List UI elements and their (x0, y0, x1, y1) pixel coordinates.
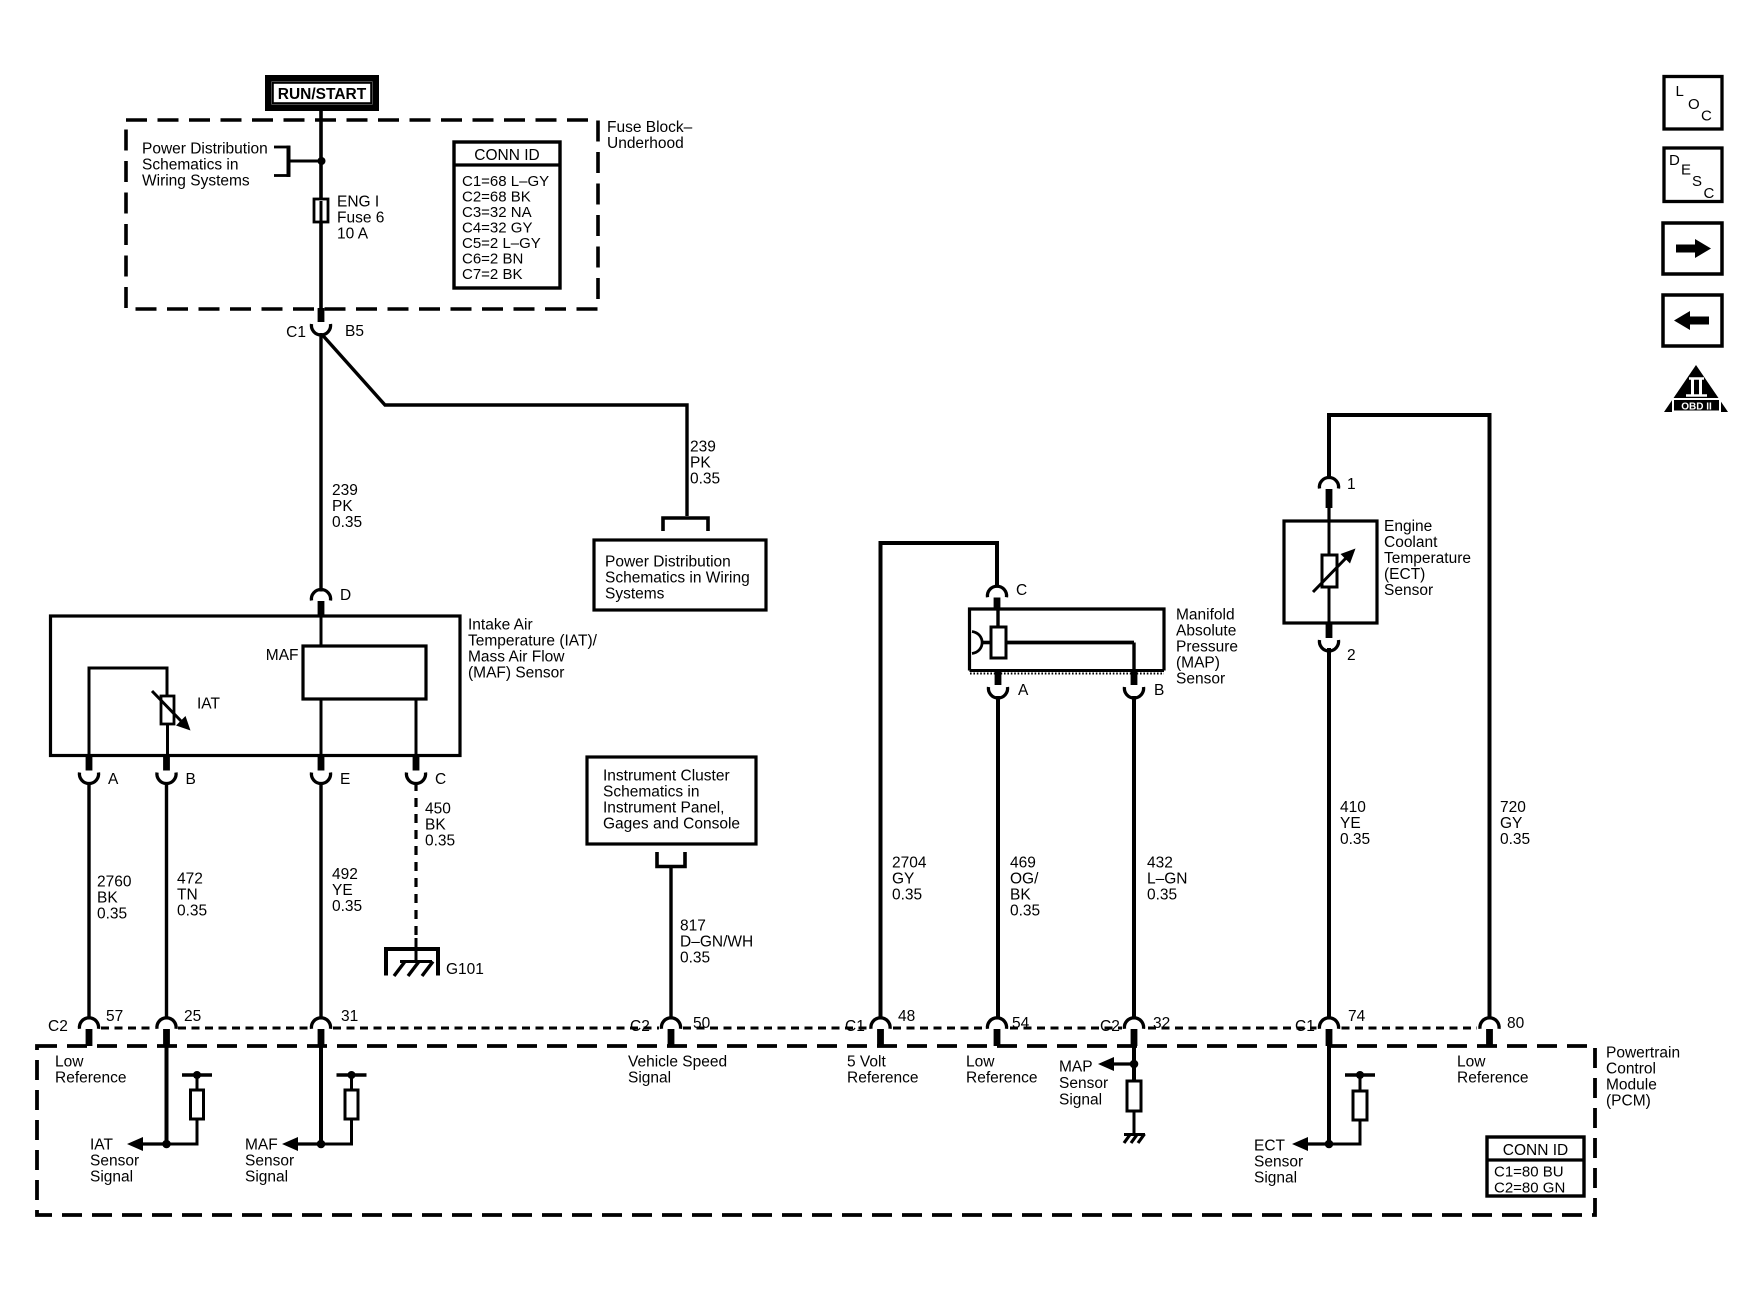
svg-text:Reference: Reference (1457, 1070, 1529, 1087)
svg-text:Engine: Engine (1384, 518, 1432, 535)
label 239 PK 0.35 (main) (332, 482, 362, 531)
svg-text:PK: PK (332, 498, 353, 515)
svg-text:C7=2 BK: C7=2 BK (462, 266, 522, 283)
svg-text:0.35: 0.35 (1010, 903, 1040, 920)
IAT sensor signal circuit (PCM) (165, 1046, 169, 1144)
svg-text:Module: Module (1606, 1077, 1657, 1094)
svg-text:0.35: 0.35 (680, 950, 710, 967)
svg-text:Signal: Signal (1059, 1092, 1102, 1109)
svg-text:BK: BK (97, 890, 118, 907)
svg-text:E: E (340, 771, 350, 788)
icon OBD II symbol (1664, 365, 1728, 413)
svg-text:2704: 2704 (892, 855, 927, 872)
label Intake Air Temperature (IAT)/Mass Air Flow (MAF) Sensor (468, 617, 598, 682)
svg-text:Powertrain: Powertrain (1606, 1045, 1680, 1062)
arrow MAP sensor signal (1098, 1057, 1134, 1071)
svg-text:C1=80 BU: C1=80 BU (1494, 1164, 1564, 1181)
connector PCM C2 pin 50 (630, 1015, 711, 1046)
svg-text:BK: BK (1010, 887, 1031, 904)
wire 469 OG/BK 0.35 (low reference) (998, 696, 1040, 1018)
svg-text:C2: C2 (630, 1018, 650, 1035)
svg-text:Temperature: Temperature (1384, 550, 1471, 567)
wire 472 TN 0.35 (167, 782, 208, 1018)
pull-up resistor (ECT) (1329, 1071, 1375, 1144)
svg-text:Signal: Signal (90, 1169, 133, 1186)
svg-text:G101: G101 (446, 961, 484, 978)
off-page reference Power Distribution (fuse feed) (142, 141, 318, 190)
svg-text:Fuse 6: Fuse 6 (337, 210, 384, 227)
svg-text:Sensor: Sensor (1384, 582, 1433, 599)
svg-text:5 Volt: 5 Volt (847, 1054, 886, 1071)
connector PCM C1 pin 80 (1480, 1015, 1525, 1046)
label Engine Coolant Temperature (ECT) Sensor (1384, 518, 1471, 599)
svg-text:Mass Air Flow: Mass Air Flow (468, 649, 565, 666)
pull-up resistor (MAF) (321, 1071, 367, 1144)
fuse block underhood boundary (126, 120, 598, 309)
net label 5 Volt Reference (847, 1054, 919, 1087)
wire 817 D-GN/WH 0.35 vehicle speed signal (671, 867, 753, 1019)
svg-text:C2: C2 (1100, 1018, 1120, 1035)
svg-text:(ECT): (ECT) (1384, 566, 1425, 583)
svg-text:Schematics in: Schematics in (142, 157, 238, 174)
svg-text:432: 432 (1147, 855, 1173, 872)
svg-text:(PCM): (PCM) (1606, 1093, 1651, 1110)
svg-text:YE: YE (332, 882, 353, 899)
svg-text:E: E (1681, 162, 1691, 179)
net label Low Reference (pin 57) (55, 1054, 127, 1087)
connector PCM C2 pin 25 (157, 1008, 201, 1046)
svg-text:Low: Low (966, 1054, 995, 1071)
label Powertrain Control Module (PCM) (1606, 1045, 1680, 1110)
svg-text:C1: C1 (845, 1018, 865, 1035)
net label Vehicle Speed Signal (628, 1054, 727, 1087)
svg-text:IAT: IAT (90, 1137, 113, 1154)
svg-text:Wiring Systems: Wiring Systems (142, 173, 250, 190)
wire 450 BK 0.35 (dashed to ground) (416, 782, 455, 940)
ECT sensor outline (1284, 521, 1377, 623)
svg-text:0.35: 0.35 (892, 887, 922, 904)
net label Low Reference (pin 80) (1457, 1054, 1529, 1087)
MAP sensor outline (970, 609, 1165, 674)
svg-text:31: 31 (341, 1008, 358, 1025)
connector PCM C1 pin 74 (1295, 1008, 1366, 1046)
svg-text:50: 50 (693, 1015, 711, 1032)
pull-down resistor (MAP) (1127, 1081, 1141, 1134)
svg-text:ENG I: ENG I (337, 194, 379, 211)
svg-text:Instrument Cluster: Instrument Cluster (603, 768, 730, 785)
svg-text:Control: Control (1606, 1061, 1656, 1078)
svg-text:S: S (1692, 173, 1702, 190)
svg-text:Pressure: Pressure (1176, 639, 1238, 656)
svg-text:25: 25 (184, 1008, 201, 1025)
svg-text:A: A (108, 771, 119, 788)
svg-text:Schematics in Wiring: Schematics in Wiring (605, 570, 750, 587)
svg-text:B5: B5 (345, 323, 364, 340)
svg-text:817: 817 (680, 918, 706, 935)
connector PCM C1 pin 54 (987, 1015, 1029, 1046)
svg-text:Reference: Reference (55, 1070, 127, 1087)
svg-text:PK: PK (690, 455, 711, 472)
svg-text:B: B (1154, 682, 1164, 699)
icon forward arrow button (1663, 223, 1722, 274)
svg-text:410: 410 (1340, 799, 1366, 816)
svg-text:Instrument Panel,: Instrument Panel, (603, 800, 724, 817)
connector pin 1 (ECT sensor) (1319, 476, 1355, 521)
wire 239 PK 0.35 to IAT/MAF sensor (319, 333, 322, 592)
IAT/MAF sensor outline (51, 616, 461, 756)
svg-text:2760: 2760 (97, 874, 132, 891)
connector C1 pin B5 (286, 308, 364, 341)
svg-text:CONN ID: CONN ID (474, 147, 539, 164)
svg-text:48: 48 (898, 1008, 915, 1025)
svg-text:YE: YE (1340, 815, 1361, 832)
reference box Instrument Cluster Schematics (587, 757, 756, 844)
svg-text:D: D (340, 587, 351, 604)
svg-text:0.35: 0.35 (690, 471, 720, 488)
svg-text:C2=68 BK: C2=68 BK (462, 189, 531, 206)
svg-text:Fuse Block–: Fuse Block– (607, 119, 693, 136)
label 239 PK 0.35 (branch) (690, 439, 720, 488)
svg-text:C5=2 L–GY: C5=2 L–GY (462, 235, 541, 252)
svg-text:0.35: 0.35 (1340, 831, 1370, 848)
svg-text:C2=80 GN: C2=80 GN (1494, 1180, 1565, 1197)
arrow MAF sensor signal (282, 1137, 321, 1151)
connector pin A (MAP sensor) (988, 671, 1029, 699)
svg-text:Temperature (IAT)/: Temperature (IAT)/ (468, 633, 598, 650)
svg-text:Low: Low (55, 1054, 84, 1071)
svg-text:GY: GY (1500, 815, 1522, 832)
svg-text:Reference: Reference (847, 1070, 919, 1087)
svg-text:C2: C2 (48, 1018, 68, 1035)
net label ECT Sensor Signal (1254, 1138, 1303, 1187)
connector pin D (IAT/MAF sensor) (311, 587, 351, 617)
ground G101 (386, 938, 484, 978)
arrow ECT sensor signal (1292, 1137, 1329, 1151)
svg-text:57: 57 (106, 1008, 123, 1025)
junction at fuse feed (318, 157, 326, 165)
svg-text:(MAP): (MAP) (1176, 655, 1220, 672)
junction MAP signal (1130, 1060, 1139, 1069)
connector ID table fuse block (454, 142, 560, 288)
svg-text:Manifold: Manifold (1176, 607, 1235, 624)
svg-text:D: D (1669, 152, 1680, 169)
svg-text:Sensor: Sensor (245, 1153, 294, 1170)
svg-text:Sensor: Sensor (1059, 1075, 1108, 1092)
IAT thermistor (variable resistor) (89, 668, 220, 756)
ECT thermistor (variable resistor) (1313, 521, 1356, 623)
svg-text:Absolute: Absolute (1176, 623, 1236, 640)
svg-text:C: C (1701, 108, 1712, 125)
wire 2704 GY 0.35 (5 volt reference) (881, 543, 998, 1018)
svg-text:0.35: 0.35 (1500, 831, 1530, 848)
label Manifold Absolute Pressure (MAP) Sensor (1176, 607, 1238, 688)
svg-text:B: B (186, 771, 196, 788)
svg-text:Signal: Signal (628, 1070, 671, 1087)
internal ground (MAP pull-down) (1124, 1134, 1145, 1143)
svg-text:C: C (1016, 582, 1027, 599)
svg-text:Vehicle Speed: Vehicle Speed (628, 1054, 727, 1071)
svg-text:492: 492 (332, 866, 358, 883)
svg-text:Intake Air: Intake Air (468, 617, 533, 634)
wire 492 YE 0.35 (321, 782, 362, 1018)
svg-text:Underhood: Underhood (607, 135, 684, 152)
svg-text:0.35: 0.35 (332, 514, 362, 531)
svg-text:Coolant: Coolant (1384, 534, 1438, 551)
icon back arrow button (1663, 295, 1722, 346)
svg-text:0.35: 0.35 (332, 898, 362, 915)
svg-text:469: 469 (1010, 855, 1036, 872)
svg-text:MAP: MAP (1059, 1059, 1093, 1076)
connector face line (PCM header row) (101, 1027, 1477, 1030)
switch RUN/START (265, 75, 379, 111)
connector ID table PCM (1487, 1137, 1584, 1197)
svg-text:GY: GY (892, 871, 914, 888)
icon DESC button (1664, 148, 1722, 202)
svg-text:0.35: 0.35 (177, 903, 207, 920)
svg-text:Power Distribution: Power Distribution (605, 554, 731, 571)
MAF element (266, 616, 426, 756)
connector PCM C1 pin 48 (845, 1008, 915, 1046)
connector PCM C2 pin 31 (311, 1008, 358, 1046)
junction MAF signal (317, 1140, 326, 1149)
svg-text:Power Distribution: Power Distribution (142, 141, 268, 158)
svg-text:74: 74 (1348, 1008, 1366, 1025)
off-page reference bracket (instrument cluster) (657, 852, 685, 867)
svg-text:0.35: 0.35 (425, 833, 455, 850)
svg-text:BK: BK (425, 817, 446, 834)
wire RUN/START to Fuse 6 (319, 111, 323, 200)
wire Fuse 6 to connector C1 pin B5 (319, 222, 323, 308)
svg-text:0.35: 0.35 (1147, 887, 1177, 904)
connector pin A (IAT/MAF sensor) (79, 756, 119, 789)
svg-text:IAT: IAT (197, 696, 220, 713)
wire 720 GY 0.35 top run (1329, 415, 1490, 1018)
svg-text:239: 239 (332, 482, 358, 499)
net label Low Reference (pin 54) (966, 1054, 1038, 1087)
svg-text:C1=68 L–GY: C1=68 L–GY (462, 173, 549, 190)
svg-text:D–GN/WH: D–GN/WH (680, 934, 753, 951)
powertrain control module boundary (37, 1046, 1595, 1215)
svg-text:1: 1 (1347, 476, 1356, 493)
svg-text:MAF: MAF (266, 647, 299, 664)
svg-text:L: L (1676, 83, 1684, 100)
ECT sensor signal circuit (PCM) (1327, 1046, 1331, 1144)
svg-text:472: 472 (177, 871, 203, 888)
svg-text:OG/: OG/ (1010, 871, 1039, 888)
connector pin C (MAP sensor) (987, 582, 1027, 610)
svg-text:C6=2 BN: C6=2 BN (462, 251, 523, 268)
net label MAP Sensor Signal (1059, 1059, 1108, 1109)
svg-text:RUN/START: RUN/START (278, 86, 367, 103)
wire 410 YE 0.35 (ECT signal) (1329, 648, 1370, 1018)
junction ECT signal (1325, 1140, 1334, 1149)
connector PCM C2 pin 32 (1100, 1015, 1170, 1046)
svg-text:Sensor: Sensor (90, 1153, 139, 1170)
net label MAF Sensor Signal (245, 1137, 294, 1186)
connector pin 2 (ECT sensor) (1319, 623, 1355, 664)
svg-text:C: C (1704, 185, 1715, 202)
svg-text:CONN ID: CONN ID (1503, 1142, 1568, 1159)
svg-text:A: A (1018, 682, 1029, 699)
svg-text:L–GN: L–GN (1147, 871, 1188, 888)
svg-text:O: O (1688, 96, 1700, 113)
svg-text:C1: C1 (286, 324, 306, 341)
off-page reference bracket (power distribution) (663, 518, 708, 531)
svg-text:(MAF) Sensor: (MAF) Sensor (468, 665, 564, 682)
svg-text:32: 32 (1153, 1015, 1170, 1032)
svg-text:450: 450 (425, 801, 451, 818)
connector pin B (IAT/MAF sensor) (157, 756, 196, 789)
MAF sensor signal circuit (PCM) (319, 1046, 323, 1144)
label 720 GY 0.35 (1500, 799, 1530, 848)
svg-text:54: 54 (1012, 1015, 1030, 1032)
svg-text:C: C (435, 771, 446, 788)
pull-up resistor (IAT) (167, 1071, 213, 1144)
svg-text:C4=32 GY: C4=32 GY (462, 220, 532, 237)
svg-text:Sensor: Sensor (1176, 671, 1225, 688)
connector pin E (IAT/MAF sensor) (311, 756, 350, 789)
svg-text:MAF: MAF (245, 1137, 278, 1154)
svg-text:239: 239 (690, 439, 716, 456)
fuse ENG I Fuse 6 10 A (314, 194, 384, 243)
label Fuse Block-Underhood (607, 119, 693, 152)
reference box Power Distribution Schematics (594, 540, 766, 610)
svg-text:C3=32 NA: C3=32 NA (462, 204, 532, 221)
connector pin B (MAP sensor) (1124, 671, 1164, 699)
wire 239 PK 0.35 branch to power distribution (322, 335, 687, 517)
svg-text:2: 2 (1347, 647, 1356, 664)
svg-text:10 A: 10 A (337, 226, 369, 243)
svg-text:Signal: Signal (1254, 1170, 1297, 1187)
svg-text:OBD II: OBD II (1681, 402, 1712, 413)
svg-text:Schematics in: Schematics in (603, 784, 699, 801)
connector pin C (IAT/MAF sensor) (406, 756, 446, 789)
svg-text:TN: TN (177, 887, 198, 904)
svg-text:80: 80 (1507, 1015, 1525, 1032)
MAP sensor signal circuit (PCM) (1132, 1046, 1136, 1082)
svg-text:720: 720 (1500, 799, 1526, 816)
icon LOC button (1664, 77, 1722, 130)
svg-text:Reference: Reference (966, 1070, 1038, 1087)
svg-text:ECT: ECT (1254, 1138, 1286, 1155)
svg-text:C1: C1 (1295, 1018, 1315, 1035)
net label IAT Sensor Signal (90, 1137, 139, 1186)
svg-text:Sensor: Sensor (1254, 1154, 1303, 1171)
svg-text:Systems: Systems (605, 586, 665, 603)
MAP pressure transducer symbol (972, 609, 1134, 670)
svg-text:Gages and Console: Gages and Console (603, 816, 740, 833)
junction IAT signal (162, 1140, 171, 1149)
connector PCM C2 pin 57 (48, 1008, 123, 1046)
arrow IAT sensor signal (127, 1137, 167, 1151)
svg-text:Signal: Signal (245, 1169, 288, 1186)
wire 2760 BK 0.35 (89, 782, 132, 1018)
svg-text:Low: Low (1457, 1054, 1486, 1071)
svg-text:0.35: 0.35 (97, 906, 127, 923)
wire 432 L-GN 0.35 (MAP signal) (1134, 696, 1188, 1018)
